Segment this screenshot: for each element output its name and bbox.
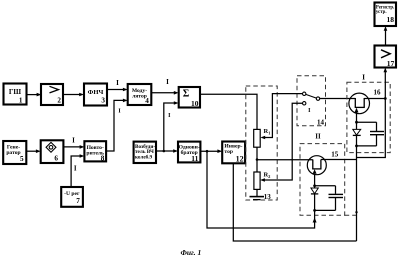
svg-text:ратор: ратор — [6, 150, 20, 156]
svg-text:I: I — [74, 164, 77, 172]
block 11 Одновибратор — [178, 142, 200, 163]
svg-text:18: 18 — [387, 15, 395, 24]
svg-text:6: 6 — [54, 154, 58, 162]
capacitor C1 — [370, 122, 384, 146]
wire 9 riser to 10 — [164, 101, 179, 151]
transistor 15 source line down — [314, 174, 316, 211]
dashed stub at box II bottom right — [345, 214, 356, 216]
resistor R1 — [254, 129, 261, 147]
diode VD1 bottom rail — [357, 145, 377, 147]
svg-text:I: I — [116, 79, 119, 87]
svg-text:I: I — [118, 108, 121, 114]
wire junction R1R2 to transistor 15 gate — [257, 159, 313, 161]
wire 6 to 8 — [63, 145, 84, 149]
svg-text:I: I — [308, 108, 311, 114]
diode VD2 — [311, 188, 318, 194]
svg-text:14: 14 — [317, 119, 325, 127]
wire 17-node down and left to source line — [357, 99, 386, 158]
svg-text:I: I — [362, 72, 365, 81]
label R2 — [264, 171, 271, 179]
wire 2 to 3 — [63, 93, 84, 97]
block 12 Инвертор — [222, 142, 245, 164]
block 5 Генератор — [3, 141, 26, 164]
resistor R2 — [254, 172, 260, 189]
switch contact lower — [303, 102, 306, 105]
diode VD2 top rail — [315, 185, 336, 187]
dashed box 13 — [246, 86, 277, 200]
svg-text:3: 3 — [101, 97, 105, 105]
block 8 Повторитель — [84, 141, 106, 162]
dashed box 14 — [297, 76, 326, 126]
svg-text:16: 16 — [374, 89, 382, 97]
switch contact upper — [303, 92, 306, 95]
svg-text:5: 5 — [20, 155, 24, 163]
diode VD1 top rail — [357, 121, 377, 123]
svg-text:17: 17 — [387, 59, 395, 68]
transistor 15 — [307, 156, 326, 175]
transistor 15 drain wire to source line of 16 — [321, 159, 357, 161]
svg-text:колеб.9: колеб.9 — [135, 154, 153, 161]
svg-text:15: 15 — [331, 150, 339, 158]
block 18 Регистр устр — [375, 3, 397, 27]
svg-text:ФНЧ: ФНЧ — [88, 89, 104, 96]
wire 5 to 6 — [26, 149, 40, 153]
svg-text:II: II — [315, 133, 321, 141]
wire 3 to 4 — [107, 88, 128, 92]
block 6 phase shifter — [41, 140, 64, 163]
block 17 amplifier — [375, 46, 397, 68]
wire 12 bottom down and right to source line — [233, 163, 356, 241]
svg-text:2: 2 — [57, 97, 61, 105]
diode VD1 — [353, 129, 361, 135]
block 2 amplifier — [41, 84, 63, 105]
wire sum 10 output down to R1 — [200, 94, 257, 129]
block 7 -Uрег — [61, 187, 83, 207]
svg-text:11: 11 — [191, 154, 198, 163]
svg-text:Фиг. 1: Фиг. 1 — [181, 248, 202, 257]
block 9 Возбудитель ВЧ колеб. — [134, 142, 156, 163]
dashed box I — [347, 82, 390, 152]
diode VD2 bottom rail — [315, 209, 336, 211]
wire switch upper contact to R1 arrow — [260, 94, 302, 140]
block 3 ФНЧ — [84, 84, 107, 106]
svg-text:10: 10 — [191, 99, 199, 108]
transistor 16 source line down — [356, 113, 358, 242]
label R1 — [264, 128, 271, 136]
wire 7 to 8 — [71, 154, 84, 187]
wire 11 to 12 with junction — [200, 149, 222, 153]
svg-text:12: 12 — [236, 155, 244, 164]
wire 1 to 2 — [27, 93, 42, 97]
junction diode top rail — [313, 184, 316, 187]
wire node up to 17 with arrow — [384, 68, 388, 99]
wire 17 to 18 with arrow — [384, 26, 388, 46]
junction drain node — [384, 97, 387, 100]
block 1 ГШ — [4, 84, 27, 105]
wire 4 to 10 — [151, 91, 178, 95]
node on source line — [355, 211, 357, 213]
wire switch to transistor 16 gate — [320, 98, 356, 100]
wire 8 to 4 — [106, 99, 128, 151]
svg-text:Σ: Σ — [183, 89, 190, 100]
svg-text:1: 1 — [19, 97, 23, 105]
svg-text:13: 13 — [264, 193, 272, 201]
wire R2 to ground — [256, 189, 258, 196]
junction source bottom rail — [355, 145, 358, 148]
svg-text:I: I — [168, 113, 171, 119]
svg-text:1: 1 — [268, 130, 270, 135]
svg-text:I: I — [166, 78, 169, 86]
wire 11 junction down and right up into box II with arrow — [207, 151, 317, 228]
svg-text:2: 2 — [268, 174, 270, 179]
wire 9 to 11 with junction — [156, 149, 178, 153]
switch pivot contact — [316, 97, 319, 100]
switch arm — [306, 94, 317, 98]
svg-text:тор: тор — [224, 149, 233, 155]
block 10 summator — [179, 87, 200, 108]
capacitor C2 — [329, 186, 344, 211]
svg-text:7: 7 — [76, 197, 80, 205]
ground — [250, 197, 265, 200]
junction diode bottom rail — [313, 209, 316, 212]
svg-text:устр.: устр. — [376, 10, 387, 15]
svg-text:I: I — [72, 137, 75, 145]
junction source top rail — [355, 121, 358, 124]
svg-text:ГШ: ГШ — [9, 88, 21, 96]
transistor 16 — [349, 93, 370, 114]
svg-text:8: 8 — [101, 154, 105, 162]
block 4 Модулятор — [128, 84, 152, 105]
wire switch lower contact to R2 arrow — [260, 103, 302, 182]
wire R1 to R2 with junction node — [256, 147, 259, 172]
dashed box II — [300, 144, 345, 216]
svg-text:4: 4 — [145, 97, 149, 105]
transistor 16 drain wire to node — [364, 98, 385, 100]
